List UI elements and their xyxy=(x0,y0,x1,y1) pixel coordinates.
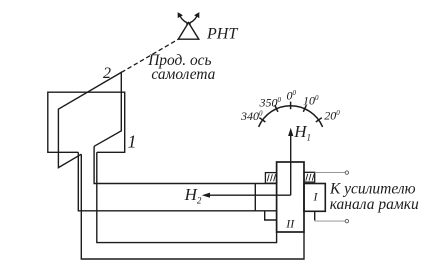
scale tick 340 xyxy=(259,118,265,122)
bearing scale arc xyxy=(259,106,323,127)
vector H1 arrow xyxy=(288,128,293,195)
aircraft longitudinal axis dashed line xyxy=(121,39,178,72)
output terminal bottom xyxy=(345,219,348,222)
loop antenna frame 2 (tilted) xyxy=(58,72,121,167)
left stator coil end cap xyxy=(254,184,256,211)
svg-text:100: 100 xyxy=(303,94,319,108)
right stator bottom step xyxy=(304,211,315,220)
svg-text:I: I xyxy=(313,190,319,204)
wire from frame 1 right lead to goniometer bottom xyxy=(97,152,277,242)
scale tick 0 xyxy=(290,102,292,110)
output wire bottom xyxy=(315,220,346,222)
non-directional beacon antenna triangle xyxy=(178,23,199,40)
output terminal top xyxy=(345,171,348,174)
antenna right arc xyxy=(186,16,197,24)
stator coil box I xyxy=(304,184,325,212)
vector H2 arrow xyxy=(202,193,291,198)
svg-text:РНТ: РНТ xyxy=(206,26,238,43)
svg-text:самолета: самолета xyxy=(151,66,215,83)
svg-text:00: 00 xyxy=(287,89,297,103)
svg-text:2: 2 xyxy=(103,65,111,82)
wire from frame 2 left lead under goniometer xyxy=(81,154,304,259)
output wire top xyxy=(315,172,346,174)
left stator bottom step xyxy=(265,211,277,220)
svg-text:1: 1 xyxy=(128,132,137,152)
goniometer rotor box II xyxy=(277,162,304,232)
wire from frame 2 right lead to left stator coil top xyxy=(94,146,277,183)
loop antenna frame 1 xyxy=(48,92,125,152)
right hatched bearing block xyxy=(304,172,315,182)
svg-text:200: 200 xyxy=(324,109,340,123)
antenna right arrowhead xyxy=(194,12,199,18)
scale tick 10 xyxy=(303,105,306,112)
svg-text:канала рамки: канала рамки xyxy=(330,196,419,213)
wire from frame 1 left lead to left stator coil xyxy=(78,152,276,211)
svg-text:II: II xyxy=(285,217,295,231)
antenna left arc xyxy=(180,16,191,24)
svg-text:3400: 3400 xyxy=(240,109,263,123)
scale tick 20 xyxy=(316,118,322,122)
left hatched bearing block xyxy=(265,173,276,184)
svg-text:H1: H1 xyxy=(293,122,311,143)
svg-text:H2: H2 xyxy=(184,185,202,206)
scale tick 350 xyxy=(275,105,278,112)
antenna left arrowhead xyxy=(178,12,183,18)
